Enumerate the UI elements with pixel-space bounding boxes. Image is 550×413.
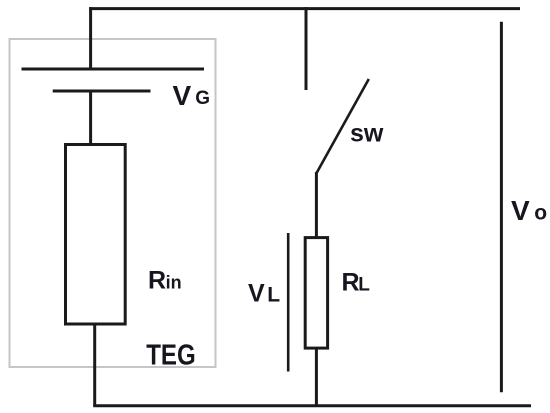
resistor R_in body [66,145,126,325]
wire: bottom net horizontal [93,404,531,407]
wire: V_o right branch vertical [500,22,503,393]
svg-text:R: R [342,269,360,297]
wire: R_L bottom to bottom net [315,348,318,406]
svg-text:sw: sw [350,120,384,148]
svg-text:R: R [148,267,166,295]
wire: V_G riser from top net to battery top plate [89,7,92,70]
wire: R_in bottom to bottom net [93,324,96,407]
V_L measurement bar [287,233,290,372]
switch SW blade (open) [316,79,369,174]
svg-text:o: o [534,202,547,225]
battery V_G bottom plate [53,90,151,93]
svg-text:V: V [248,280,265,308]
svg-text:L: L [358,275,370,296]
svg-text:G: G [195,88,210,109]
TEG enclosure box [10,39,216,367]
svg-text:V: V [173,80,192,111]
wire: battery bottom plate to R_in [89,90,92,146]
svg-text:L: L [267,284,280,307]
svg-text:TEG: TEG [146,340,196,372]
wire: switch upper stub from top net [305,7,308,90]
svg-text:in: in [166,273,182,293]
wire: switch lower contact to R_L [315,172,318,238]
battery V_G top plate [22,68,205,71]
wire: top net horizontal [89,7,520,10]
svg-text:V: V [511,195,530,226]
resistor R_L body [305,238,327,349]
